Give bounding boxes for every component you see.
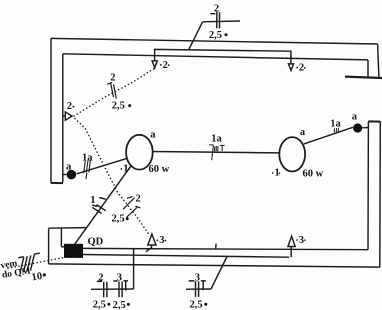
switch a left dot [67, 170, 77, 180]
switch a left stub [63, 174, 67, 176]
callout D ticks circuit 2 [123, 196, 140, 217]
svg-text:2: 2 [110, 72, 115, 83]
svg-text:3: 3 [195, 272, 200, 283]
svg-text:2: 2 [163, 60, 168, 71]
switch a right dot [353, 123, 362, 132]
callout B ticks circuit 3 [189, 281, 206, 297]
svg-text:2: 2 [98, 272, 103, 283]
label vem do QM [0, 257, 31, 281]
feeder ticks from QM [18, 253, 40, 273]
svg-text:1: 1 [90, 195, 95, 206]
callout B riser diagonal [211, 256, 227, 289]
svg-text:2: 2 [136, 194, 141, 205]
callout C ticks circuit 2 [107, 82, 116, 98]
outlet triangle 3 left [148, 234, 156, 248]
outlet triangle 3 right [288, 236, 295, 257]
callout A ticks circuit 3 [113, 281, 128, 297]
wall bottom-left inner horizontal [61, 246, 65, 248]
callout B stub [186, 288, 211, 290]
conduit lamp 1 to lamp 2 [153, 152, 280, 153]
wall bottom-left outer vertical [48, 229, 50, 264]
switch a right stub [362, 127, 368, 129]
wall top outer [51, 38, 378, 44]
svg-text:1a: 1a [82, 153, 93, 164]
svg-text:a: a [352, 111, 358, 122]
svg-text:2,5: 2,5 [209, 30, 222, 41]
svg-text:10: 10 [31, 271, 43, 284]
conductor ticks 1a right [334, 128, 338, 133]
svg-text:60 w: 60 w [149, 164, 170, 175]
svg-text:a: a [66, 162, 72, 173]
outlet triangle 2 left wall [63, 112, 72, 120]
wall left cap [51, 182, 63, 184]
svg-text:2,5: 2,5 [190, 300, 203, 310]
conduit QD to lamp 1 [75, 166, 131, 245]
distribution board QD [64, 244, 83, 258]
svg-text:3: 3 [159, 235, 164, 246]
window sill line right [345, 77, 382, 78]
svg-text:2,5: 2,5 [112, 101, 125, 112]
dotted feeder from QM to QD [8, 258, 64, 269]
svg-text:2: 2 [214, 4, 219, 15]
wall right lower cap [368, 120, 380, 122]
wall left inner [62, 54, 64, 183]
wall bottom-left cap [48, 227, 86, 230]
svg-text:a: a [300, 127, 306, 138]
svg-text:60 w: 60 w [303, 169, 324, 180]
lamp 2 outline [279, 137, 305, 171]
svg-text:1a: 1a [211, 133, 222, 144]
svg-text:a: a [150, 130, 156, 141]
lamp 1 outline [126, 135, 153, 170]
wall bottom inner (conduit with outlets 3) [83, 248, 368, 249]
conduit switch-a-left to lamp 1 [77, 158, 128, 174]
conductor ticks 1a left [84, 160, 91, 179]
conduit lower run QD to right [83, 255, 289, 258]
wall bottom outer [49, 264, 380, 267]
svg-text:2: 2 [67, 101, 72, 112]
svg-text:2: 2 [299, 63, 304, 74]
wall left outer [50, 38, 52, 182]
svg-text:1: 1 [123, 164, 128, 175]
svg-text:2,5: 2,5 [112, 214, 125, 225]
conductor ticks circuit 1 [92, 198, 106, 214]
svg-text:QD: QD [88, 237, 104, 248]
label 10 feeder [31, 271, 43, 284]
conduit riser callout A [133, 249, 135, 289]
callout A ticks circuit 2 [97, 281, 107, 297]
conductor tick on bottom wall line [215, 244, 217, 249]
dotted run outlet-2 wall to outlet-3 bottom [75, 119, 150, 237]
ceiling conduit bracket top [155, 49, 291, 63]
circuit-2 callout stub top [203, 20, 240, 23]
outlet arrow 2 right head [288, 64, 293, 71]
wall right inner upper [367, 60, 369, 77]
conductor ticks 1a mid [209, 145, 225, 160]
svg-text:2,5: 2,5 [113, 300, 126, 310]
kink dash under triangle 3 left [146, 248, 151, 252]
outlet arrow 2 left head [152, 61, 157, 68]
callout A stub [91, 288, 134, 290]
wall top inner [63, 54, 368, 60]
wall right lower inner [367, 122, 369, 250]
svg-text:1a: 1a [330, 119, 341, 130]
svg-text:3: 3 [117, 272, 122, 283]
circuit-2 callout ticks top [210, 12, 219, 29]
wall bottom-left inner vertical [60, 228, 62, 246]
dotted run outlet-2 wall to arrow 2 top [74, 69, 154, 117]
wall right lower outer [379, 122, 382, 268]
conduit riser to circuit-2 callout [189, 22, 203, 50]
svg-text:3: 3 [299, 235, 304, 246]
svg-text:2,5: 2,5 [93, 300, 106, 310]
conduit lamp 2 to switch-a-right [304, 127, 353, 144]
wall right outer upper [378, 44, 379, 77]
